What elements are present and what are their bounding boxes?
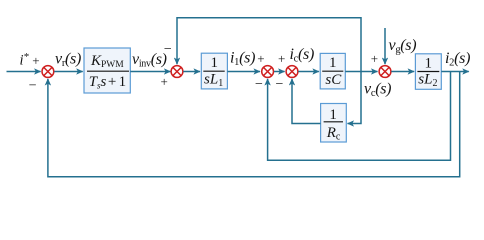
svg-text:1: 1 [329,107,337,123]
wire output i_2(s) [441,71,469,73]
svg-text:i2(s): i2(s) [445,50,470,69]
svg-text:+: + [278,51,285,66]
svg-text:−: − [255,77,263,92]
wire block 1/sC to J5 (v_c node) [345,71,377,73]
svg-text:+: + [32,53,39,68]
summing junction J4 [286,66,298,78]
svg-text:vr(s): vr(s) [55,51,81,70]
block K_PWM / (T_s s + 1) [84,48,130,93]
svg-text:−: − [164,42,172,57]
svg-text:ic(s): ic(s) [290,46,315,65]
wire J3 to J4 [274,71,285,73]
summing junction J5 [379,66,391,78]
svg-text:+: + [257,51,264,66]
svg-text:*: * [24,51,30,63]
block 1/(sC) [320,53,345,89]
wire J1 to PWM block, node v_r(s) [54,71,82,73]
svg-text:1: 1 [211,55,219,71]
svg-text:1: 1 [329,55,337,71]
block 1/(sL2) [415,54,441,90]
summing junction J1 [42,66,54,78]
svg-text:vinv(s): vinv(s) [132,51,167,70]
svg-text:−: − [276,77,284,92]
block 1/(sL1) [201,53,227,89]
svg-text:vg(s): vg(s) [389,37,417,56]
wire v_c top feedback to J2 (minus) [177,18,361,72]
wire J4 to block 1/sC, node i_c(s) [298,71,319,73]
svg-text:1: 1 [425,55,433,71]
wire J5 to block 1/sL2 [391,71,414,73]
wire outer feedback i_2 to J1 (minus) [48,72,460,177]
wire J2 to block 1/sL1 [183,71,200,73]
summing junction J3 [262,66,274,78]
svg-text:−: − [29,79,37,94]
svg-text:vc(s): vc(s) [364,81,391,100]
svg-text:sC: sC [325,72,342,88]
summing junction J2 [171,66,183,78]
wire inner feedback i_2 to J3 (minus) [268,72,451,161]
svg-text:i1(s): i1(s) [230,50,255,69]
wire PWM block to J2, node v_inv(s) [130,71,170,73]
wire block 1/Rc output up into J4 (minus) [292,79,321,124]
svg-text:+: + [161,74,168,89]
wire input i* to summing junction J1 [7,71,41,73]
wire v_c down to block 1/Rc input [348,72,362,124]
wire block 1/sL1 to J3, node i_1(s) [227,71,260,73]
svg-text:+: + [371,51,378,66]
svg-text:Tss+1: Tss+1 [89,74,126,90]
wire v_g input arrow into J5 [384,28,386,64]
block 1/(Rc) [321,104,347,143]
